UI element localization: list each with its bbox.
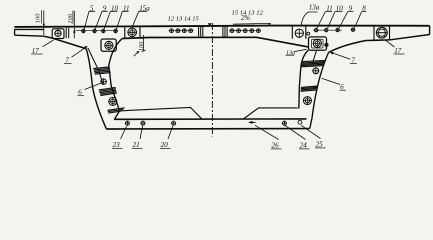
wire right brace outer edge bbox=[310, 53, 329, 129]
node chord bolt L1 bbox=[125, 121, 129, 125]
node left lower box bracket bbox=[101, 39, 116, 51]
leader 23 bbox=[121, 126, 127, 139]
svg-text:26: 26 bbox=[272, 142, 280, 150]
node chord bolt L3 bbox=[172, 121, 176, 125]
wire right brace inner edge bbox=[299, 50, 309, 109]
node dim tick x44 bbox=[43, 11, 45, 36]
wire 2% slope line bbox=[233, 22, 269, 25]
node right brace bolt lower bbox=[303, 97, 311, 105]
svg-text:9: 9 bbox=[103, 4, 107, 12]
node right lower box bracket bbox=[309, 37, 327, 50]
wire beam bottom right flare bbox=[329, 40, 390, 53]
leader 13a bbox=[301, 12, 318, 25]
leader 17 right bbox=[386, 40, 395, 47]
rivet row left end bbox=[76, 30, 119, 32]
wire beam top edge bbox=[14, 26, 429, 27]
bolt near right vertex bbox=[325, 43, 328, 46]
chord bottom edge bbox=[106, 128, 309, 130]
rivet row right end bbox=[313, 29, 342, 31]
gusset left bbox=[120, 107, 203, 119]
node right brace hatch band A bbox=[301, 60, 326, 66]
node chord arrow right bbox=[250, 121, 256, 123]
svg-text:11: 11 bbox=[326, 5, 332, 13]
node left brace hatch band C bbox=[107, 108, 124, 113]
node right brace bolt upper bbox=[313, 68, 319, 74]
svg-text:17: 17 bbox=[394, 47, 402, 55]
wire left brace outer edge bbox=[86, 49, 106, 129]
leader 25 bbox=[301, 125, 321, 138]
leader 26 bbox=[255, 125, 279, 139]
svg-text:100: 100 bbox=[67, 13, 74, 23]
node center splice right bbox=[223, 26, 227, 37]
label underlines bbox=[31, 54, 405, 149]
svg-text:13а: 13а bbox=[286, 51, 295, 57]
svg-text:7: 7 bbox=[65, 56, 69, 64]
svg-text:13а: 13а bbox=[309, 4, 320, 12]
svg-text:21: 21 bbox=[133, 141, 140, 149]
wire beam bottom middle bbox=[123, 37, 309, 47]
svg-text:11: 11 bbox=[123, 4, 129, 12]
node left tip box bbox=[15, 29, 44, 36]
rivet row left-center bbox=[169, 30, 194, 32]
wire left brace middle line bbox=[88, 48, 103, 84]
leader 11 bbox=[116, 11, 128, 29]
svg-text:12 13 14 15: 12 13 14 15 bbox=[168, 15, 200, 22]
svg-text:24: 24 bbox=[300, 142, 308, 150]
node left brace bolt lower bbox=[109, 97, 117, 105]
node dim line x74 bbox=[73, 11, 75, 39]
svg-text:17: 17 bbox=[32, 47, 40, 55]
svg-text:100: 100 bbox=[35, 13, 42, 23]
leader 17 left bbox=[43, 40, 54, 47]
svg-text:10: 10 bbox=[111, 4, 119, 12]
svg-text:10: 10 bbox=[336, 5, 344, 13]
node left brace hatch band A bbox=[93, 67, 110, 74]
svg-text:8: 8 bbox=[362, 5, 366, 13]
leader 21 bbox=[140, 126, 143, 139]
node right brace hatch band B bbox=[301, 86, 318, 91]
node axis center line bbox=[211, 23, 213, 137]
rivet between right boxes bbox=[307, 32, 310, 35]
svg-text:7: 7 bbox=[351, 56, 355, 64]
leader 10 right bbox=[328, 12, 343, 29]
svg-text:2%: 2% bbox=[241, 15, 250, 22]
leader 7 right with arrow bbox=[332, 53, 351, 60]
label 13a mid-right leader bbox=[294, 49, 306, 51]
node chord bolt R2 bbox=[298, 120, 302, 124]
dim line mid-left 100 bbox=[143, 35, 145, 51]
rivet row right-center bbox=[229, 30, 261, 32]
svg-text:25: 25 bbox=[316, 141, 324, 149]
wire right brace middle line bbox=[312, 51, 317, 67]
svg-text:23: 23 bbox=[113, 141, 121, 149]
wire beam bottom left bbox=[44, 36, 86, 48]
svg-text:100: 100 bbox=[138, 41, 145, 51]
svg-text:20: 20 bbox=[161, 141, 169, 149]
node left clamp box on beam 15a bbox=[125, 26, 140, 38]
leader 15a bbox=[133, 11, 148, 26]
svg-text:9: 9 bbox=[349, 5, 353, 13]
node right junction open box 13a bbox=[292, 26, 306, 39]
node chord bolt R1 bbox=[282, 121, 286, 125]
leader 5 bbox=[84, 11, 95, 29]
leader 8 right bbox=[355, 12, 367, 28]
leader 20 bbox=[168, 126, 173, 139]
node chord bolt L2 bbox=[141, 121, 145, 125]
leader 6 right bbox=[322, 78, 341, 84]
node crown mark triangle bbox=[208, 23, 212, 26]
leader 6 left bbox=[85, 83, 101, 89]
leader 7 left with arrow bbox=[72, 47, 86, 57]
node right end bracket 17 bbox=[374, 26, 390, 40]
svg-text:15а: 15а bbox=[139, 4, 150, 12]
leader 9 right bbox=[339, 12, 353, 29]
gusset right bbox=[244, 108, 298, 119]
node left end bracket 17 bbox=[52, 29, 64, 39]
leader 9 bbox=[95, 11, 107, 29]
leader 11 right bbox=[317, 12, 332, 28]
chord top edge bbox=[114, 118, 307, 120]
svg-text:6: 6 bbox=[78, 88, 82, 96]
node left brace bolt upper bbox=[101, 79, 106, 84]
node left brace hatch band B bbox=[99, 87, 117, 95]
svg-text:6: 6 bbox=[340, 83, 344, 91]
wire left brace inner edge bbox=[109, 38, 123, 119]
wire right end taper bbox=[389, 26, 429, 40]
svg-text:5: 5 bbox=[90, 4, 94, 12]
node center splice left bbox=[199, 26, 203, 37]
leader 10 bbox=[104, 11, 117, 29]
leader 24 bbox=[285, 126, 305, 140]
